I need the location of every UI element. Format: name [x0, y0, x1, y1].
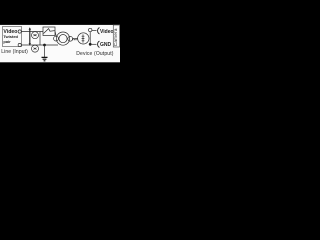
primary loop — [54, 36, 59, 41]
letterbox background — [0, 0, 120, 90]
arrowhead down — [29, 43, 31, 46]
svg-text:pair: pair — [3, 39, 11, 44]
wire gnd out — [92, 43, 97, 45]
svg-text:Device (Output): Device (Output) — [76, 51, 113, 57]
suppressor box — [43, 27, 55, 36]
secondary squiggle — [72, 38, 77, 40]
device box (right) — [113, 25, 119, 47]
toroid outer — [56, 32, 69, 45]
wire box to transformer — [55, 31, 56, 36]
output loop oval — [78, 33, 89, 44]
wire video out — [92, 30, 97, 32]
terminal bubble bottom — [18, 43, 21, 46]
ground drop wire — [44, 45, 46, 57]
wire bottom — [22, 44, 59, 46]
terminal bubble top — [18, 30, 21, 33]
clamp circle top — [32, 32, 39, 39]
svg-text:GND: GND — [100, 42, 112, 48]
connector arc video — [98, 28, 100, 34]
svg-text:Video: Video — [100, 29, 114, 35]
wire top — [22, 31, 44, 33]
vertical tie line — [89, 32, 91, 45]
clamp tick top — [34, 34, 37, 36]
terminal circle — [89, 28, 92, 31]
svg-text:Camera: Camera — [113, 28, 118, 46]
ground bars — [42, 57, 48, 60]
ground junction dot — [43, 44, 46, 47]
toroid inner — [59, 35, 67, 43]
junction dot — [89, 43, 92, 46]
vertical branch wire — [39, 32, 41, 46]
transient arrow line — [29, 28, 31, 44]
white schematic strip — [0, 25, 120, 62]
arrowhead up — [29, 27, 31, 30]
breaker line — [44, 29, 55, 34]
connector arc gnd — [98, 41, 100, 47]
secondary loop — [68, 36, 73, 41]
svg-text:Line (Input): Line (Input) — [1, 49, 28, 55]
element in oval — [82, 34, 85, 42]
source box (Video Twisted pair) — [3, 27, 22, 47]
clamp tick bottom — [34, 48, 37, 50]
clamp circle bottom — [32, 45, 39, 52]
